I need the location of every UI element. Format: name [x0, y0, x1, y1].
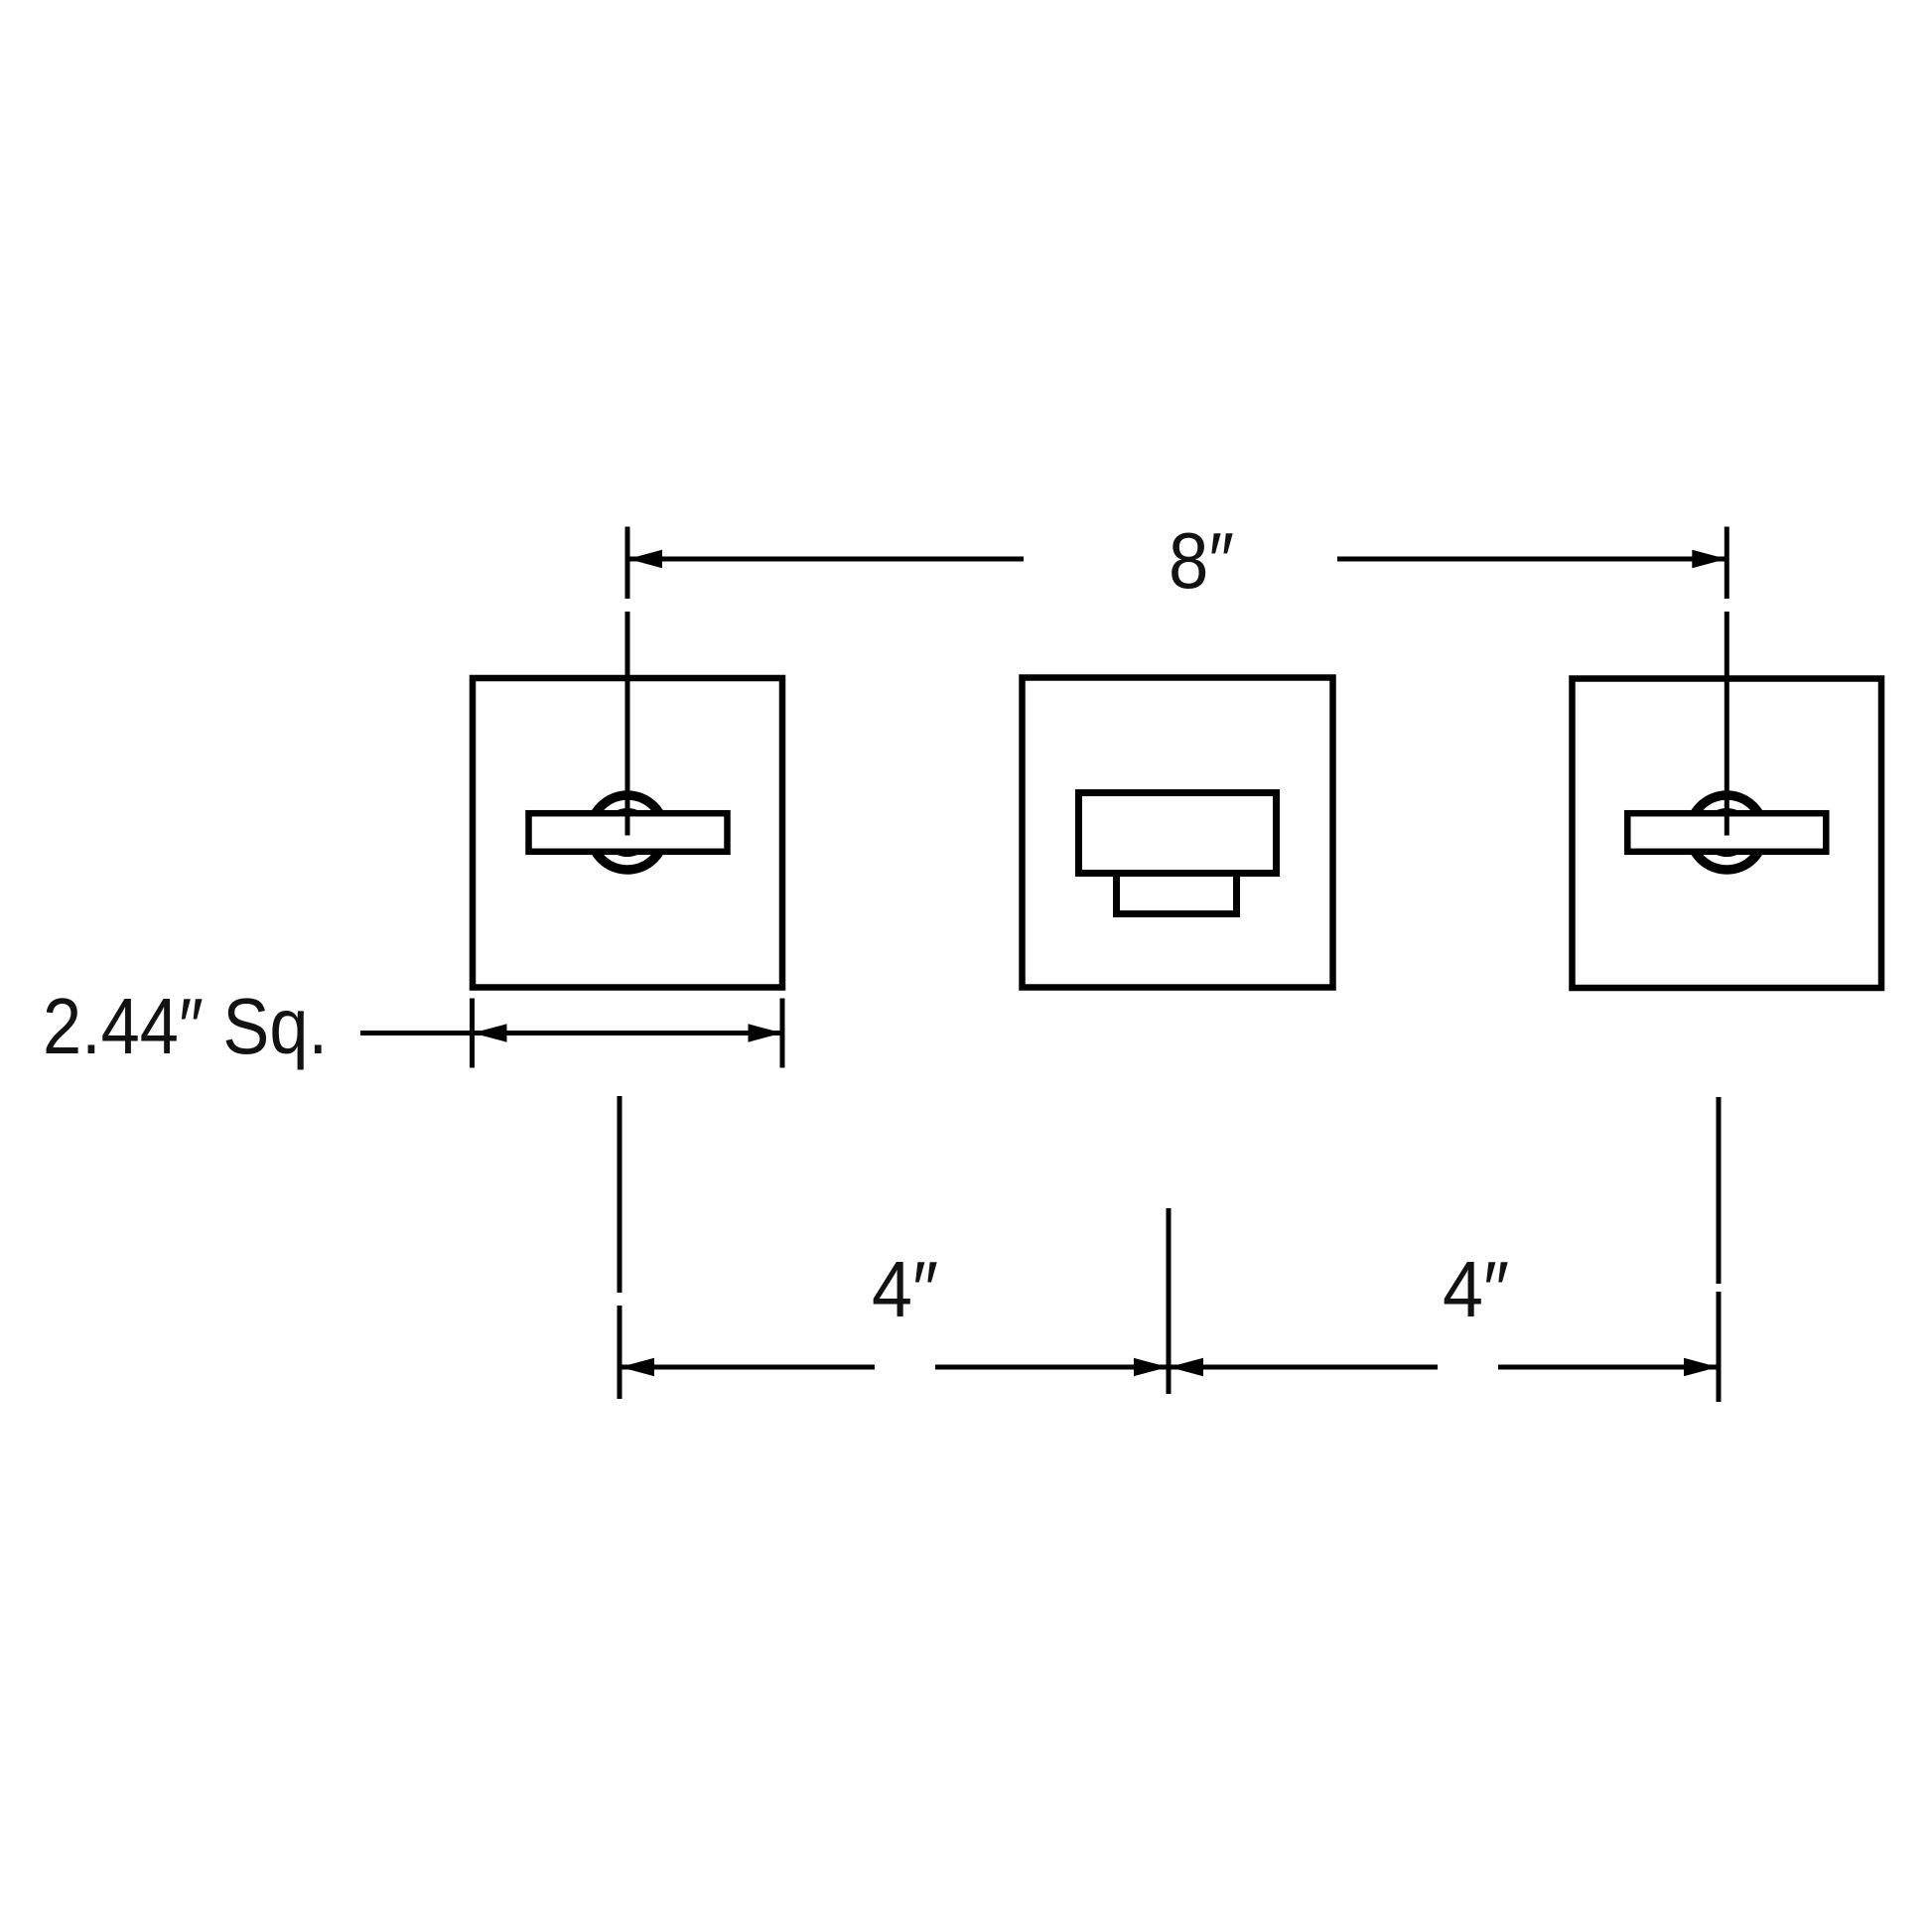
right handle lever bar — [1627, 813, 1826, 852]
left handle lever bar — [529, 813, 728, 852]
right top extension centerline lower segment — [1725, 612, 1729, 836]
right 4 inch dimension right arrowhead — [1684, 1358, 1719, 1376]
svg-text:8″: 8″ — [1169, 516, 1234, 605]
right 4 inch dimension line segment a — [1171, 1365, 1438, 1370]
8 inch dimension left arrowhead — [628, 550, 663, 568]
left handle inner circle — [606, 811, 649, 855]
left 4 inch dimension left arrowhead — [621, 1358, 655, 1376]
right escutcheon square — [1573, 679, 1882, 989]
8 inch dimension right arrowhead — [1692, 550, 1726, 568]
spout nozzle rectangle — [1117, 874, 1237, 914]
2.44 dimension left tick — [470, 999, 475, 1068]
bottom left extension centerline lower dash — [618, 1306, 622, 1399]
left handle outer circle — [591, 795, 665, 870]
svg-text:4″: 4″ — [1443, 1245, 1509, 1333]
right handle inner circle — [1705, 811, 1748, 855]
2.44 dimension line — [473, 1031, 782, 1035]
svg-text:2.44″ Sq.: 2.44″ Sq. — [43, 982, 328, 1070]
8 inch dimension line right segment — [1337, 557, 1725, 562]
right 4 inch dimension line segment b — [1498, 1365, 1717, 1370]
bottom right extension centerline lower dash — [1717, 1292, 1722, 1402]
8 inch dimension line left segment — [629, 557, 1024, 562]
right top extension centerline upper dash — [1725, 527, 1729, 600]
bottom left extension centerline upper segment — [618, 1096, 622, 1293]
left top extension centerline upper dash — [625, 527, 630, 600]
svg-text:4″: 4″ — [872, 1245, 938, 1333]
left escutcheon square — [473, 678, 782, 988]
right handle outer circle — [1690, 795, 1764, 870]
middle escutcheon square — [1023, 678, 1333, 988]
bottom right extension centerline upper segment — [1717, 1097, 1722, 1284]
left 4 inch dimension line segment b — [935, 1365, 1167, 1370]
spout body rectangle — [1079, 793, 1277, 874]
2.44 dimension leader line — [360, 1031, 471, 1035]
2.44 dimension right tick — [780, 999, 785, 1068]
2.44 dimension left arrowhead — [473, 1024, 507, 1041]
left 4 inch dimension line segment a — [621, 1365, 875, 1370]
right 4 inch dimension left arrowhead — [1170, 1358, 1204, 1376]
left 4 inch dimension right arrowhead — [1134, 1358, 1169, 1376]
bottom middle extension tick — [1167, 1208, 1172, 1394]
left top extension centerline lower segment — [625, 612, 630, 836]
2.44 dimension right arrowhead — [749, 1024, 783, 1041]
